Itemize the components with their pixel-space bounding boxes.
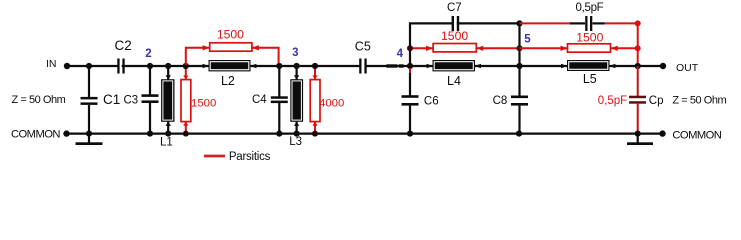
svg-text:L2: L2 xyxy=(221,74,235,88)
resistor R parasitic of L3 value 4000 xyxy=(310,66,344,134)
svg-text:L4: L4 xyxy=(447,74,461,88)
junction R4000 top xyxy=(312,63,318,69)
capacitor C8 xyxy=(493,66,528,134)
wire red 0,5pF bridge branch xyxy=(520,23,638,66)
junction loop L5 right xyxy=(635,45,641,51)
svg-text:1500: 1500 xyxy=(576,31,603,45)
capacitor C2 xyxy=(115,38,132,73)
resistor R parasitic of L4 value 1500 xyxy=(426,29,483,52)
svg-text:1500: 1500 xyxy=(441,29,468,43)
junction R1500v top xyxy=(183,63,189,69)
junction R1500v bottom xyxy=(183,131,189,137)
junction C6 bottom xyxy=(407,131,413,137)
capacitor C6 xyxy=(402,73,439,134)
svg-text:Z = 50 Ohm: Z = 50 Ohm xyxy=(12,94,66,106)
label Z=50 Ohm right xyxy=(672,95,726,107)
terminal IN xyxy=(46,58,70,70)
svg-text:Z = 50 Ohm: Z = 50 Ohm xyxy=(672,95,726,107)
capacitor 0,5pF top (parasitic bridge) xyxy=(570,2,605,31)
inductor L3 xyxy=(289,66,303,148)
svg-text:1500: 1500 xyxy=(191,98,216,110)
node 5 label xyxy=(524,34,531,46)
capacitor C1 xyxy=(81,66,121,134)
junction node 5 top xyxy=(516,20,522,26)
inductor L5 xyxy=(561,60,615,86)
capacitor C4 xyxy=(252,66,288,134)
svg-text:5: 5 xyxy=(524,34,531,46)
junction C1 bottom xyxy=(86,131,92,137)
terminal OUT xyxy=(660,62,699,74)
inductor L1 xyxy=(160,66,175,148)
wire red loop around L5 xyxy=(520,47,638,49)
junction loop L4 right / node 5 mid xyxy=(517,45,523,51)
junction C3 bottom xyxy=(147,131,153,137)
wire top main rail xyxy=(67,65,663,67)
svg-text:Parsitics: Parsitics xyxy=(229,151,271,163)
svg-text:4: 4 xyxy=(397,48,404,60)
junction Cp bottom xyxy=(635,131,641,137)
svg-text:3: 3 xyxy=(292,47,298,59)
junction C3 top xyxy=(147,63,153,69)
svg-text:C1: C1 xyxy=(103,92,120,107)
junction L1 bottom xyxy=(165,131,171,137)
inductor L2 xyxy=(203,60,257,88)
capacitor C5 xyxy=(355,39,371,73)
svg-text:COMMON: COMMON xyxy=(11,128,60,140)
junction Cp top / node red vertical xyxy=(635,63,641,69)
svg-text:L1: L1 xyxy=(160,136,173,148)
capacitor Cp (parasitic 0,5pF) xyxy=(598,66,664,134)
junction C4 bottom xyxy=(276,131,282,137)
terminal COMMON left xyxy=(11,128,70,140)
resistor R parasitic of L5 value 1500 xyxy=(561,31,618,52)
legend Parsitics xyxy=(204,151,271,163)
node 2 label xyxy=(145,48,151,60)
svg-text:0,5pF: 0,5pF xyxy=(576,2,604,14)
inductor L4 xyxy=(427,60,482,88)
junction L3 top xyxy=(294,63,300,69)
svg-text:C3: C3 xyxy=(124,95,139,107)
svg-text:L3: L3 xyxy=(289,136,302,148)
node 3 label xyxy=(292,47,298,59)
svg-text:2: 2 xyxy=(145,48,151,60)
svg-text:C6: C6 xyxy=(424,96,439,108)
svg-text:C2: C2 xyxy=(115,38,132,53)
resistor R parasitic of L1 value 1500 xyxy=(181,66,216,134)
junction loop L4 left xyxy=(407,45,413,51)
junction node 5 main xyxy=(516,63,522,69)
junction node 4 xyxy=(407,63,413,73)
svg-text:L5: L5 xyxy=(583,72,597,86)
svg-text:C7: C7 xyxy=(447,2,462,14)
label Z=50 Ohm left xyxy=(12,94,66,106)
junction R4000 bottom xyxy=(312,131,318,137)
capacitor C7 xyxy=(447,2,462,31)
ground left xyxy=(76,134,103,145)
svg-text:0,5pF: 0,5pF xyxy=(598,95,627,107)
wire red loop around L2 xyxy=(186,48,279,65)
terminal COMMON right xyxy=(659,130,721,142)
capacitor C3 xyxy=(124,66,159,134)
svg-text:C8: C8 xyxy=(493,95,508,107)
wire arrow dashes before node 4 xyxy=(386,64,403,67)
junction node 3 loop/C4 xyxy=(276,63,282,69)
svg-text:COMMON: COMMON xyxy=(672,130,721,142)
svg-text:OUT: OUT xyxy=(676,62,699,74)
wire bottom common rail xyxy=(67,133,663,135)
node 4 label xyxy=(397,48,404,60)
junction C8 bottom xyxy=(516,131,522,137)
svg-text:C4: C4 xyxy=(252,94,267,106)
svg-text:4000: 4000 xyxy=(319,98,344,110)
junction red bridge right top xyxy=(635,20,641,26)
junction L3 bottom xyxy=(294,131,300,137)
svg-text:1500: 1500 xyxy=(217,28,244,42)
ground right xyxy=(627,134,653,145)
resistor R parasitic of L2 value 1500 xyxy=(203,28,259,52)
wire C7 branch xyxy=(410,23,520,66)
junction C1 top xyxy=(86,63,92,69)
wire red loop around L4 xyxy=(410,47,520,49)
svg-text:IN: IN xyxy=(46,58,57,70)
svg-text:Cp: Cp xyxy=(649,95,664,107)
svg-text:C5: C5 xyxy=(355,39,371,53)
junction L1 top xyxy=(165,63,171,69)
